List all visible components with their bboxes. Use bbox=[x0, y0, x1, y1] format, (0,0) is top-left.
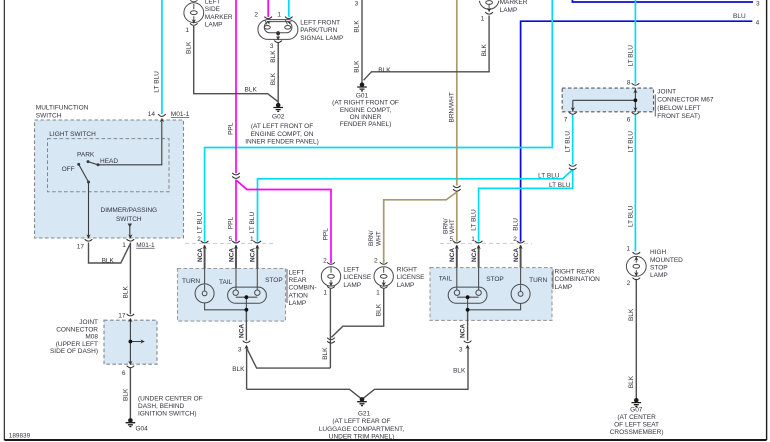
wire BLU circuit 3 top right bbox=[572, 0, 753, 2]
svg-text:LAMP: LAMP bbox=[343, 282, 361, 289]
wire BLU circuit 4 to right rear TURN pin 2 bbox=[521, 21, 753, 241]
svg-text:NCA: NCA bbox=[471, 248, 478, 262]
left rear turn lamp bottom wire bbox=[205, 303, 247, 310]
wire BLK right side marker lamp pin1 to G01 bbox=[364, 16, 490, 81]
svg-text:LT BLU: LT BLU bbox=[249, 212, 256, 234]
svg-text:7: 7 bbox=[564, 116, 568, 123]
connector left license pin 1 bbox=[329, 282, 333, 286]
svg-text:SWITCH: SWITCH bbox=[116, 216, 142, 223]
svg-text:TAIL: TAIL bbox=[219, 279, 233, 286]
svg-text:BRN/: BRN/ bbox=[368, 230, 375, 246]
svg-text:LT BLU: LT BLU bbox=[565, 131, 572, 153]
lamp left rear turn bbox=[195, 284, 214, 303]
svg-text:2: 2 bbox=[197, 236, 201, 243]
wire LT BLU from M67 pin7 down to inline connector bbox=[572, 114, 574, 164]
svg-text:CONNECTOR M67: CONNECTOR M67 bbox=[657, 97, 714, 104]
svg-text:SIGNAL LAMP: SIGNAL LAMP bbox=[300, 35, 343, 42]
MFS light switch lever bbox=[79, 164, 89, 182]
lamp right rear turn bbox=[511, 284, 530, 303]
left rear TURN pin2 wire down to turn lamp bbox=[204, 246, 206, 269]
connector face dashed strip right rear bbox=[440, 242, 532, 244]
wire LT BLU to MFS pin 14 bbox=[161, 0, 163, 114]
svg-text:MARKER: MARKER bbox=[500, 0, 528, 6]
svg-text:3: 3 bbox=[270, 43, 274, 50]
svg-text:(AT LEFT FRONT OF: (AT LEFT FRONT OF bbox=[251, 123, 313, 130]
svg-text:BLK: BLK bbox=[354, 60, 361, 73]
svg-text:5: 5 bbox=[449, 236, 453, 243]
lamp left side marker bbox=[184, 0, 204, 22]
svg-text:OF LEFT SEAT: OF LEFT SEAT bbox=[614, 421, 659, 428]
svg-text:LT BLU: LT BLU bbox=[627, 45, 634, 67]
svg-text:2: 2 bbox=[254, 11, 258, 18]
wire BRN/WHT below connector to right rear TAIL pin 5 bbox=[456, 192, 458, 242]
connector left front park/turn pin 3 bbox=[276, 36, 280, 40]
svg-text:BLK: BLK bbox=[453, 368, 466, 375]
lamp left license bbox=[321, 267, 340, 286]
M67 internal wire bbox=[573, 88, 636, 112]
wire BLK right front vertical to G01 bbox=[361, 0, 363, 83]
svg-text:BLK: BLK bbox=[270, 72, 277, 85]
svg-text:HIGH: HIGH bbox=[650, 249, 667, 256]
svg-text:M01-1: M01-1 bbox=[171, 111, 190, 118]
svg-text:2: 2 bbox=[627, 280, 631, 287]
connector right license pin 1 bbox=[382, 282, 386, 286]
svg-text:LT BLU: LT BLU bbox=[153, 71, 160, 93]
lamp left front park/turn signal (dual) bbox=[258, 20, 298, 40]
svg-text:(BELOW LEFT: (BELOW LEFT bbox=[657, 105, 700, 112]
svg-text:2: 2 bbox=[323, 258, 327, 265]
junction dot left rear turn join bbox=[245, 308, 249, 312]
svg-text:1: 1 bbox=[122, 242, 126, 249]
svg-text:LEFT: LEFT bbox=[343, 266, 359, 273]
svg-text:LAMP: LAMP bbox=[555, 284, 573, 291]
right rear STOP pin1 wire bbox=[478, 246, 480, 268]
svg-text:1: 1 bbox=[323, 290, 327, 297]
svg-text:BLK: BLK bbox=[378, 67, 391, 74]
joint connector M67 box bbox=[562, 88, 653, 112]
svg-text:NCA: NCA bbox=[513, 248, 520, 262]
svg-text:JOINT: JOINT bbox=[657, 89, 676, 96]
svg-text:MARKER: MARKER bbox=[205, 14, 233, 21]
wire PPL branch to left license lamp pin 2 bbox=[236, 180, 331, 263]
svg-text:SWITCH: SWITCH bbox=[36, 112, 62, 119]
svg-text:PARK: PARK bbox=[77, 152, 95, 159]
left rear label bracket bbox=[286, 269, 288, 303]
svg-text:2: 2 bbox=[513, 236, 517, 243]
wire LT BLU top edge down to M67 pin 8 bbox=[634, 0, 636, 84]
left rear filament bar bbox=[236, 296, 258, 298]
MFS wire pivot down to pin 17 bbox=[88, 182, 90, 237]
right rear filament bar bbox=[457, 296, 479, 298]
MFS park-head contact link bbox=[88, 162, 98, 165]
connector left marker pin 1 bbox=[192, 19, 196, 23]
svg-text:(AT RIGHT FRONT OF: (AT RIGHT FRONT OF bbox=[332, 100, 399, 107]
connector right rear pin 3 bbox=[464, 341, 472, 343]
light switch inner box bbox=[48, 139, 170, 192]
svg-text:WHT: WHT bbox=[449, 219, 456, 234]
MFS dimmer arrow dot bbox=[128, 224, 132, 228]
svg-text:G04: G04 bbox=[136, 426, 149, 433]
svg-text:LICENSE: LICENSE bbox=[343, 274, 371, 281]
svg-text:LEFT: LEFT bbox=[205, 0, 221, 5]
ground G07 bbox=[632, 398, 642, 407]
connector M67 pin 8 bbox=[632, 83, 640, 85]
page border bottom bbox=[4, 439, 766, 441]
M08 internal wire bbox=[130, 320, 141, 364]
connector left front park/turn pin 1 bbox=[285, 17, 293, 19]
svg-text:COMBINATION: COMBINATION bbox=[555, 276, 601, 283]
svg-text:UNDER TRIM PANEL): UNDER TRIM PANEL) bbox=[329, 433, 395, 440]
connector left rear pin 2 bbox=[201, 241, 209, 243]
svg-text:3: 3 bbox=[756, 0, 760, 7]
svg-text:8: 8 bbox=[627, 79, 631, 86]
svg-text:LAMP: LAMP bbox=[650, 272, 668, 279]
svg-text:ON INNER: ON INNER bbox=[350, 114, 382, 121]
svg-text:2: 2 bbox=[374, 258, 378, 265]
svg-text:M01-1: M01-1 bbox=[136, 242, 155, 249]
svg-text:1: 1 bbox=[277, 11, 281, 18]
connector face dashed strip left rear bbox=[185, 242, 276, 244]
lamp left rear tail/stop stadium bbox=[228, 287, 267, 303]
junction dot park/turn lamp bbox=[276, 31, 280, 35]
svg-text:BLK: BLK bbox=[102, 257, 115, 264]
wire LT BLU to left front park/turn pin 1 bbox=[288, 0, 290, 17]
svg-text:BLK: BLK bbox=[270, 50, 277, 63]
MFS contact dot OFF bbox=[77, 163, 80, 166]
svg-text:NCA: NCA bbox=[197, 248, 204, 262]
wire BLK left front park/turn pin3 to G02 bbox=[277, 43, 279, 104]
svg-text:3: 3 bbox=[238, 347, 242, 354]
connector left license pin 2 bbox=[327, 262, 335, 264]
svg-text:LAMP: LAMP bbox=[289, 300, 307, 307]
svg-text:TURN: TURN bbox=[529, 277, 547, 284]
left rear combination lamp box bbox=[178, 269, 286, 322]
wire PPL tail feed down x236 bbox=[235, 0, 237, 173]
svg-text:3: 3 bbox=[355, 1, 359, 8]
connector M08 pin 6 bbox=[128, 361, 132, 365]
svg-text:(AT CENTER: (AT CENTER bbox=[617, 414, 656, 421]
svg-text:STOP: STOP bbox=[650, 265, 668, 272]
M67 label bracket bbox=[654, 95, 656, 117]
svg-text:DIMMER/PASSING: DIMMER/PASSING bbox=[101, 207, 158, 214]
page border right bbox=[766, 0, 768, 440]
svg-text:BLK: BLK bbox=[232, 366, 245, 373]
wire BLK MFS pin 1 down to M08 pin 17 bbox=[129, 243, 131, 315]
svg-text:PPL: PPL bbox=[323, 228, 330, 241]
inline connector LT BLU x572.7 bbox=[569, 164, 577, 166]
wire PPL to left front park/turn pin 2 bbox=[267, 0, 269, 17]
lamp right rear tail/stop stadium bbox=[448, 287, 487, 303]
svg-text:17: 17 bbox=[77, 243, 85, 250]
svg-text:G02: G02 bbox=[272, 113, 285, 120]
svg-text:BLK: BLK bbox=[122, 388, 129, 401]
svg-text:LAMP: LAMP bbox=[205, 22, 223, 29]
svg-text:LT BLU: LT BLU bbox=[627, 131, 634, 153]
svg-text:BLK: BLK bbox=[481, 43, 488, 56]
svg-text:WHT: WHT bbox=[375, 231, 382, 246]
svg-text:(AT LEFT REAR OF: (AT LEFT REAR OF bbox=[332, 418, 390, 425]
svg-text:BLK: BLK bbox=[628, 308, 635, 321]
ground G04 bbox=[126, 418, 136, 427]
svg-text:SIDE OF DASH): SIDE OF DASH) bbox=[50, 348, 98, 355]
right rear combination lamp box bbox=[430, 268, 552, 321]
svg-text:BLU: BLU bbox=[512, 218, 519, 231]
connector right license pin 2 bbox=[380, 262, 388, 264]
svg-text:3: 3 bbox=[459, 347, 463, 354]
ground G01 bbox=[357, 82, 367, 91]
wire LT BLU M67 pin6 down to high mounted stop lamp pin 1 bbox=[634, 114, 636, 251]
svg-text:LEFT FRONT: LEFT FRONT bbox=[300, 19, 340, 26]
connector M67 pin 7 bbox=[571, 107, 575, 111]
svg-text:JOINT: JOINT bbox=[79, 319, 98, 326]
svg-text:6: 6 bbox=[627, 117, 631, 124]
wire BRN/WHT branch to right license lamp pin 2 bbox=[384, 192, 457, 263]
ground G21 bbox=[357, 397, 367, 406]
svg-text:TAIL: TAIL bbox=[439, 276, 453, 283]
svg-text:6: 6 bbox=[122, 370, 126, 377]
M08 internal arrow right bbox=[140, 339, 144, 343]
svg-text:4: 4 bbox=[756, 20, 760, 27]
multifunction switch box bbox=[35, 120, 184, 238]
svg-text:FRONT SEAT): FRONT SEAT) bbox=[657, 113, 700, 120]
joint connector M08 box bbox=[104, 320, 157, 364]
svg-text:1: 1 bbox=[250, 236, 254, 243]
svg-text:NCA: NCA bbox=[449, 248, 456, 262]
svg-text:G07: G07 bbox=[630, 407, 643, 414]
svg-text:M08: M08 bbox=[85, 334, 98, 341]
svg-text:BLK: BLK bbox=[185, 41, 192, 54]
junction dot right rear bar bbox=[466, 295, 470, 299]
svg-text:LT BLU: LT BLU bbox=[538, 172, 560, 179]
lamp high mounted stop bbox=[626, 256, 646, 276]
svg-text:BLK: BLK bbox=[322, 347, 329, 360]
MFS contact dot PARK bbox=[87, 160, 90, 163]
MFS head contact wire to pin 14 bbox=[98, 121, 162, 165]
svg-text:NCA: NCA bbox=[228, 248, 235, 262]
svg-text:BLK: BLK bbox=[628, 375, 635, 388]
svg-text:ENGINE COMPT, ON: ENGINE COMPT, ON bbox=[251, 131, 314, 138]
svg-text:SIDE: SIDE bbox=[205, 6, 221, 13]
svg-text:BRN/WHT: BRN/WHT bbox=[448, 92, 455, 122]
svg-text:G01: G01 bbox=[356, 92, 369, 99]
svg-text:LEFT: LEFT bbox=[289, 269, 305, 276]
svg-text:BLK: BLK bbox=[122, 286, 129, 299]
connector left front park/turn pin 2 bbox=[264, 17, 272, 19]
right rear pin3 wire exits box bbox=[467, 310, 469, 341]
svg-text:1: 1 bbox=[185, 27, 189, 34]
wire BLK left side marker lamp pin1 to G02 bbox=[194, 26, 279, 102]
svg-text:IGNITION SWITCH): IGNITION SWITCH) bbox=[138, 410, 197, 417]
connector MFS pin 14 bbox=[158, 114, 166, 117]
right rear TAIL pin5 wire bbox=[456, 246, 458, 268]
svg-text:LAMP: LAMP bbox=[397, 282, 415, 289]
svg-text:RIGHT: RIGHT bbox=[397, 266, 417, 273]
wire LT BLU branch to left rear STOP pin 1 bbox=[258, 170, 573, 242]
junction dot right rear turn join bbox=[466, 308, 470, 312]
svg-text:PPL: PPL bbox=[228, 122, 235, 135]
svg-text:LT BLU: LT BLU bbox=[196, 212, 203, 234]
inline connector BRN/WHT x456.8 bbox=[453, 186, 461, 188]
wire LT BLU branch to right rear STOP pin 1 bbox=[479, 170, 573, 242]
right rear stem bbox=[467, 297, 469, 310]
MFS dimmer/passing switch stub bbox=[129, 227, 131, 238]
right rear turn lamp bottom wire bbox=[468, 303, 521, 310]
page border left bbox=[3, 0, 5, 440]
svg-text:NCA: NCA bbox=[239, 324, 246, 338]
inline connector PPL x236 bbox=[232, 173, 240, 175]
svg-text:STOP: STOP bbox=[486, 276, 504, 283]
svg-text:LAMP: LAMP bbox=[500, 7, 518, 14]
connector M67 pin 6 bbox=[633, 107, 637, 111]
connector MFS pin 17 bottom bbox=[86, 234, 90, 238]
junction dot M67 bbox=[634, 98, 638, 102]
connector right rear pin 2 bbox=[517, 241, 525, 243]
right rear label bracket bbox=[552, 270, 554, 290]
svg-text:(UPPER LEFT: (UPPER LEFT bbox=[56, 341, 98, 348]
wire LT BLU left turn feed: top edge down x552, left at y147.5, down to left rear TURN pin 2 bbox=[205, 0, 553, 242]
svg-text:REAR: REAR bbox=[289, 277, 307, 284]
svg-text:5: 5 bbox=[229, 236, 233, 243]
wire BLK jumper pin 17 to pin 1 bbox=[89, 243, 131, 264]
svg-text:LICENSE: LICENSE bbox=[397, 274, 425, 281]
left license pin1 wire down bbox=[329, 289, 331, 368]
left rear pin 3 wire exits box bbox=[245, 310, 247, 341]
left rear stem from bar bbox=[245, 297, 247, 310]
left rear pin3 to ground bus bbox=[246, 348, 248, 390]
svg-text:OFF: OFF bbox=[62, 166, 75, 173]
svg-text:1: 1 bbox=[626, 246, 630, 253]
left rear TAIL pin5 wire into stadium bbox=[235, 246, 237, 269]
lamp right side marker (cut off at top) bbox=[479, 1, 498, 10]
svg-text:BLK: BLK bbox=[375, 303, 382, 316]
svg-text:LIGHT SWITCH: LIGHT SWITCH bbox=[49, 131, 96, 138]
svg-text:PARK/TURN: PARK/TURN bbox=[300, 27, 337, 34]
svg-text:FENDER PANEL): FENDER PANEL) bbox=[340, 121, 392, 128]
left rear STOP pin1 wire into stadium bbox=[256, 246, 258, 269]
svg-text:LUGGAGE COMPARTMENT,: LUGGAGE COMPARTMENT, bbox=[319, 426, 405, 433]
connector MFS pin 1 bottom bbox=[128, 234, 132, 238]
junction dot M08 bbox=[129, 340, 133, 344]
svg-text:ATION: ATION bbox=[289, 292, 309, 299]
svg-text:189839: 189839 bbox=[9, 432, 31, 439]
wire BLK M08 pin 6 down to G04 bbox=[129, 368, 131, 419]
svg-text:INNER FENDER PANEL): INNER FENDER PANEL) bbox=[245, 139, 319, 146]
svg-text:14: 14 bbox=[148, 111, 156, 118]
svg-text:PPL: PPL bbox=[228, 217, 235, 230]
ground bus to G21 and right rear pin 3 bbox=[247, 348, 468, 400]
svg-text:LT BLU: LT BLU bbox=[549, 182, 571, 189]
connector high stop pin 2 bbox=[634, 272, 638, 276]
MFS contact dot HEAD bbox=[97, 163, 100, 166]
svg-text:CROSSMEMBER): CROSSMEMBER) bbox=[610, 429, 664, 436]
svg-text:LT BLU: LT BLU bbox=[627, 205, 634, 227]
connector left rear pin 1 bbox=[254, 241, 262, 243]
svg-text:1: 1 bbox=[376, 290, 380, 297]
svg-text:BLU: BLU bbox=[733, 13, 746, 20]
svg-text:RIGHT REAR: RIGHT REAR bbox=[555, 268, 595, 275]
svg-text:TURN: TURN bbox=[182, 278, 200, 285]
right rear TURN pin2 wire bbox=[520, 246, 522, 268]
svg-text:ENGINE COMPT,: ENGINE COMPT, bbox=[340, 107, 391, 114]
left rear pin3 branch to license ground bbox=[247, 349, 331, 369]
connector right rear pin 5 bbox=[453, 241, 461, 243]
svg-text:NCA: NCA bbox=[460, 324, 467, 338]
connector right marker pin 1 bbox=[487, 8, 491, 12]
svg-text:G21: G21 bbox=[358, 411, 371, 418]
wire PPL below inline connector to left rear TAIL pin 5 bbox=[235, 180, 237, 242]
svg-text:LT BLU: LT BLU bbox=[470, 209, 477, 231]
svg-text:1: 1 bbox=[471, 236, 475, 243]
svg-text:HEAD: HEAD bbox=[100, 158, 118, 165]
ground G02 bbox=[273, 103, 283, 112]
svg-text:BLK: BLK bbox=[354, 20, 361, 33]
svg-text:STOP: STOP bbox=[265, 277, 283, 284]
wire BLK high mounted stop lamp pin2 to G07 bbox=[635, 279, 637, 398]
connector right rear pin 1 bbox=[475, 241, 483, 243]
inline connector license BLK x331 bbox=[327, 338, 335, 340]
svg-text:MULTIFUNCTION: MULTIFUNCTION bbox=[36, 105, 89, 112]
right license pin1 wire down joining left bbox=[331, 289, 383, 338]
connector left rear pin 3 bbox=[243, 341, 251, 343]
wire BRN/WHT down x456.8 bbox=[456, 0, 458, 186]
MFS pivot dot bbox=[87, 181, 90, 184]
svg-text:MOUNTED: MOUNTED bbox=[650, 257, 683, 264]
connector left rear pin 5 bbox=[232, 241, 240, 243]
lamp right license bbox=[374, 267, 393, 286]
junction dot left rear bar bbox=[245, 295, 249, 299]
svg-text:NCA: NCA bbox=[250, 248, 257, 262]
svg-text:CONNECTOR: CONNECTOR bbox=[56, 326, 98, 333]
svg-text:1: 1 bbox=[481, 16, 485, 23]
svg-text:BLK: BLK bbox=[245, 87, 258, 94]
connector M08 pin 17 bbox=[127, 314, 135, 316]
svg-text:COMBIN-: COMBIN- bbox=[289, 285, 317, 292]
svg-text:(UNDER CENTER OF: (UNDER CENTER OF bbox=[138, 396, 203, 403]
svg-text:17: 17 bbox=[118, 313, 126, 320]
connector high stop pin 1 bbox=[633, 252, 641, 254]
svg-text:DASH, BEHIND: DASH, BEHIND bbox=[138, 403, 185, 410]
